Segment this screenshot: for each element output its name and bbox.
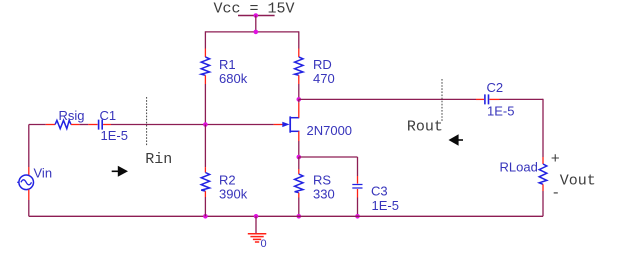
lead drain (red) [298,103,300,118]
wire RD branch upper [298,31,300,48]
lead C1 right (red) [103,124,111,126]
junction dot ground stem [254,214,259,219]
resistor RLoad [539,164,547,184]
wire C2 to right edge [500,98,544,100]
svg-text:390k: 390k [219,187,248,202]
svg-text:680k: 680k [219,71,248,86]
capacitor C1 [99,120,103,130]
junction dot top rail [254,30,259,35]
wire C1 to gate [111,124,274,126]
wire R2 branch upper [204,125,206,168]
wire R2 to bottom rail [204,197,206,216]
svg-text:R1: R1 [219,57,236,72]
junction dot drain node [297,97,302,102]
arrow Rout (points left) [458,139,463,141]
lead C3 top (red) [357,176,359,184]
ground [248,234,266,242]
svg-text:-: - [551,185,560,202]
svg-text:Rin: Rin [145,151,172,168]
svg-text:2N7000: 2N7000 [307,123,353,138]
lead Rsig right (red) [71,124,80,126]
svg-text:C2: C2 [487,80,504,95]
lead R2 top (red) [204,167,206,172]
lead C2 right (red) [489,98,499,100]
transistor Q1 source bar [290,130,299,132]
lead RLoad top (red) [542,157,544,164]
wire Vcc stem [255,16,257,32]
svg-text:1E-5: 1E-5 [372,198,399,213]
transistor Q1 drain bar [290,117,299,119]
wire source node to C3 branch [299,156,358,158]
transistor Q1 gate bar [289,116,291,132]
junction dot source node [297,155,302,160]
svg-text:RLoad: RLoad [500,160,538,175]
wire bottom rail [29,215,543,217]
resistor R1 [201,57,209,75]
lead C1 left (red) [88,124,97,126]
lead Rsig left (red) [46,124,55,126]
svg-text:330: 330 [313,187,335,202]
wire source to RS/C3 junction [298,141,300,157]
svg-text:470: 470 [313,71,335,86]
svg-text:+: + [551,151,560,168]
wire C3 to bottom rail [357,198,359,217]
lead C3 bottom (red) [357,189,359,198]
svg-text:Vout: Vout [560,172,596,189]
source Vin circle [19,175,34,190]
resistor RS [295,174,303,193]
svg-text:1E-5: 1E-5 [101,128,128,143]
junction dot signal/R1/R2 [203,122,208,127]
lead RS top (red) [298,169,300,174]
wire output to C2 [299,98,476,100]
dashed measurement line Rout [441,79,443,122]
lead RS bottom (red) [298,193,300,198]
lead RD bottom (red) [298,75,300,84]
wire RD to drain junction [298,84,300,99]
wire Vin to bottom rail [28,200,30,216]
wire drain stub [298,99,300,102]
lead R1 top (red) [204,49,206,58]
resistor R2 [201,173,209,192]
lead R1 bottom (red) [204,75,206,84]
svg-text:RD: RD [313,57,332,72]
wire Vin branch upper [28,125,30,168]
dashed measurement line Rin [146,97,148,146]
svg-text:Rout: Rout [407,118,443,135]
transistor Q1 2N7000 gate arrow [282,122,289,127]
capacitor C2 [485,94,489,104]
lead source (red) [298,131,300,141]
svg-text:1E-5: 1E-5 [487,104,514,119]
lead RLoad bottom (red) [542,184,544,191]
wire Rsig to C1 [80,124,89,126]
resistor Rsig [55,120,71,128]
source Vin left tick [17,181,19,183]
lead Vin top (red) [28,167,30,175]
wire RS branch upper [298,157,300,169]
svg-text:0: 0 [261,238,267,250]
svg-text:C1: C1 [100,108,117,123]
lead Vin bottom (red) [28,190,30,201]
junction dot on Vcc bar [254,13,259,18]
resistor RD [295,57,303,75]
wire ground stem [255,216,257,233]
wire R1 branch upper [204,31,206,48]
Vcc supply bar [238,15,275,17]
lead R2 bottom (red) [204,191,206,197]
wire right edge upper [542,99,544,157]
junction dot R2 bottom [203,214,208,219]
capacitor C3 [352,185,362,189]
svg-text:Rsig: Rsig [59,108,85,123]
lead gate (red) [274,124,283,126]
wire RS to bottom rail [298,198,300,217]
source Vin sine wave [21,180,32,185]
wire signal left segment [29,124,46,126]
lead RD top (red) [298,49,300,58]
svg-text:R2: R2 [219,173,236,188]
junction dot C3 bottom [355,214,360,219]
wire top rail [205,31,298,33]
svg-text:RS: RS [313,173,331,188]
svg-text:C3: C3 [371,184,388,199]
wire C3 branch upper [357,157,359,176]
junction dot RS bottom [297,214,302,219]
svg-text:Vin: Vin [34,166,53,181]
arrow Rin (points right) [112,171,119,173]
wire R1 to signal junction [204,84,206,125]
lead C2 left (red) [476,98,484,100]
wire RLoad to bottom rail [542,191,544,216]
